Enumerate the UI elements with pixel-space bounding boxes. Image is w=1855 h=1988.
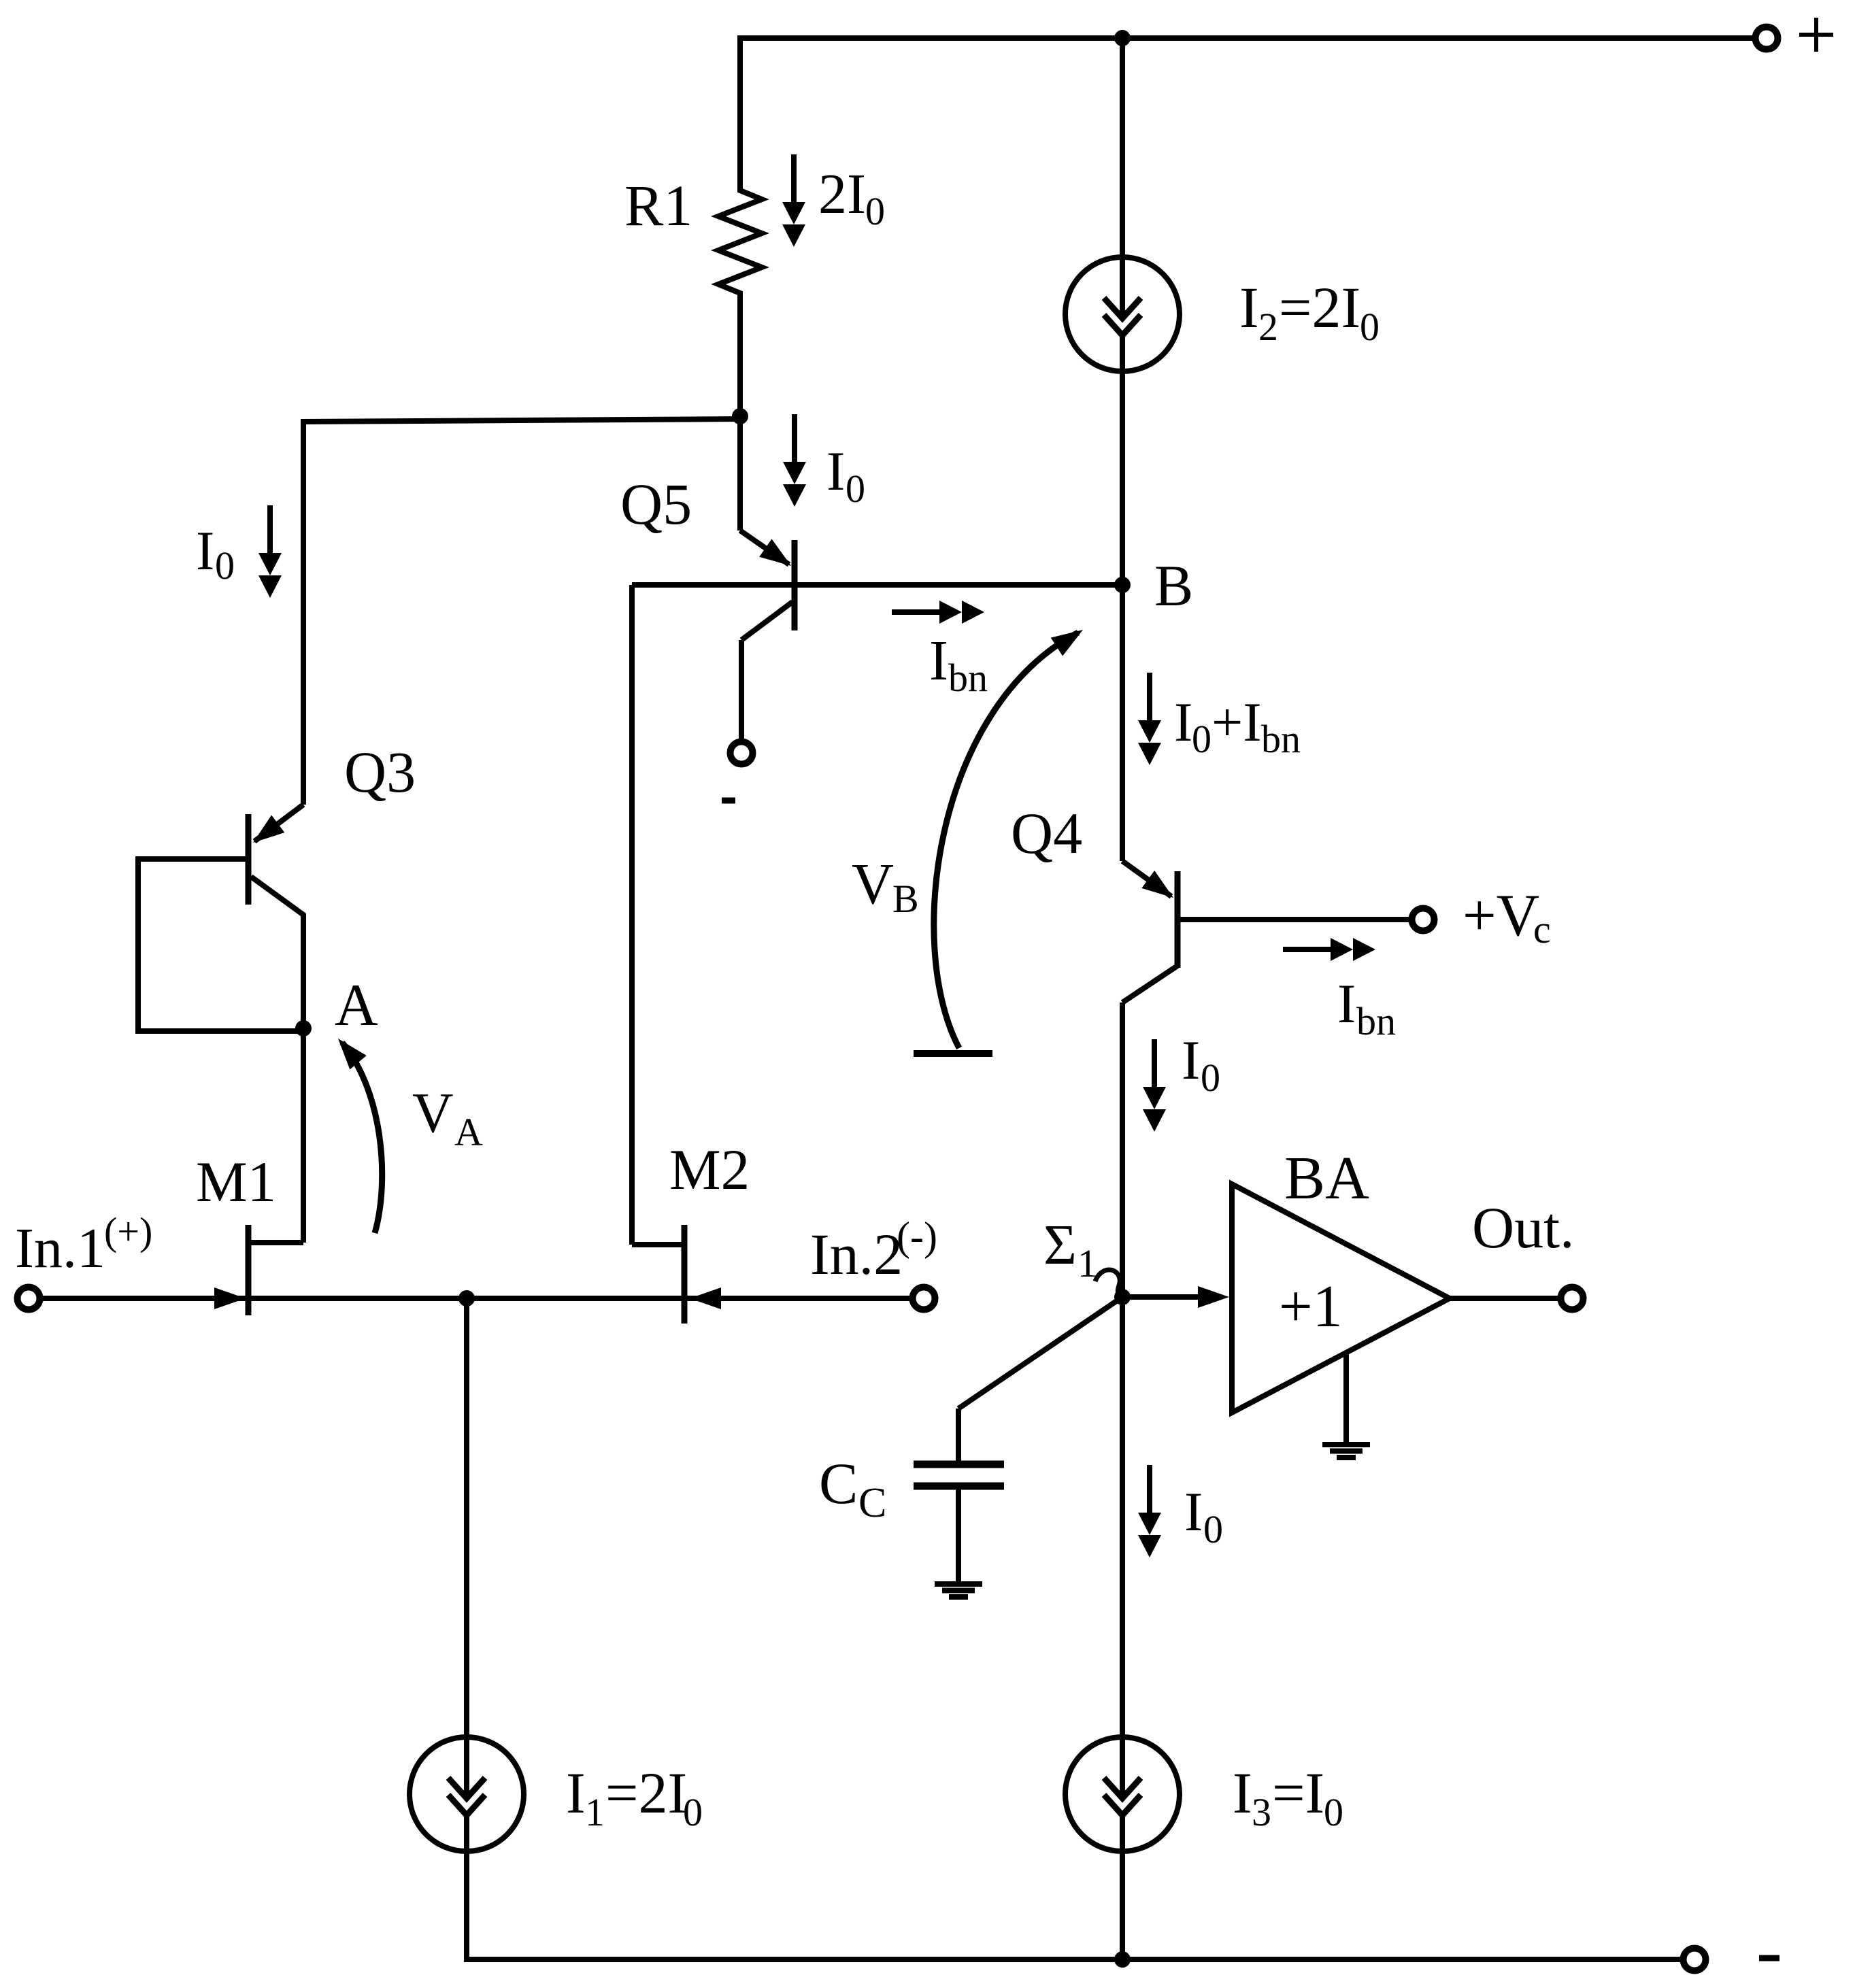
svg-text:2: 2 xyxy=(1258,305,1278,349)
svg-text:0: 0 xyxy=(1201,1056,1220,1100)
node tail xyxy=(458,1290,475,1307)
svg-text:bn: bn xyxy=(948,656,988,700)
svg-text:(+): (+) xyxy=(104,1209,152,1253)
svg-text:In.2: In.2 xyxy=(810,1222,903,1287)
arrow I0 left branch xyxy=(258,505,282,598)
svg-text:0: 0 xyxy=(846,467,865,511)
svg-text:0: 0 xyxy=(1324,1790,1343,1834)
svg-text:+1: +1 xyxy=(1279,1274,1343,1340)
svg-text:I: I xyxy=(1184,1481,1203,1543)
transistor Q5 xyxy=(740,416,797,741)
svg-text:1: 1 xyxy=(585,1790,605,1834)
terminal +Vc xyxy=(1412,909,1435,931)
wire I2 branch top xyxy=(1120,38,1125,257)
arrow I0 at Q5 emitter xyxy=(783,414,806,507)
label minus at Q5 collector xyxy=(722,798,735,804)
wire tail down to I1 xyxy=(464,1298,469,1737)
svg-text:B: B xyxy=(892,877,919,921)
node top rail / I2 xyxy=(1114,30,1131,46)
arrow I0+Ibn xyxy=(1138,673,1161,765)
op-amp BA buffer xyxy=(1232,1184,1450,1413)
svg-text:bn: bn xyxy=(1356,999,1396,1043)
svg-text:C: C xyxy=(858,1480,886,1526)
svg-text:I: I xyxy=(196,520,214,582)
svg-text:+I: +I xyxy=(1211,691,1262,753)
wire I2 to node B xyxy=(1120,371,1125,585)
svg-text:M2: M2 xyxy=(669,1138,750,1202)
svg-text:Q4: Q4 xyxy=(1011,801,1082,866)
svg-text:=I: =I xyxy=(1272,1760,1324,1825)
svg-text:+V: +V xyxy=(1463,883,1539,949)
arrowhead buffer input xyxy=(1198,1286,1229,1308)
arc arrow VA xyxy=(330,1032,382,1233)
squiggle Sigma1 pointer xyxy=(1095,1270,1120,1295)
wire Q5 base line to node B xyxy=(632,582,1122,588)
svg-text:0: 0 xyxy=(215,543,235,588)
ground at BA xyxy=(1322,1353,1370,1458)
node bottom rail / I3 xyxy=(1114,1951,1131,1968)
svg-text:R1: R1 xyxy=(624,173,692,238)
svg-text:I: I xyxy=(1239,275,1259,340)
terminal In.2 xyxy=(913,1287,935,1310)
svg-text:1: 1 xyxy=(1077,1241,1097,1285)
wire I3 to bottom rail xyxy=(1120,1851,1125,1959)
svg-text:c: c xyxy=(1533,907,1551,951)
svg-text:I: I xyxy=(826,440,845,502)
svg-text:Q3: Q3 xyxy=(344,739,416,805)
current source I1 xyxy=(410,1737,524,1851)
wire Q4 emitter down to Sigma1 and I3 xyxy=(1120,1003,1125,1737)
transistor Q4 xyxy=(1122,861,1411,1003)
svg-text:A: A xyxy=(454,1110,483,1154)
arrow Ibn into node B xyxy=(892,601,984,624)
wire I1 to bottom rail xyxy=(467,1851,1682,1959)
transistor Q3 (diode connected PNP) xyxy=(138,805,303,1031)
terminal - (bottom right) xyxy=(1684,1949,1706,1971)
wire common source line xyxy=(248,1296,684,1301)
svg-text:2I: 2I xyxy=(818,163,866,226)
terminal + (top right) xyxy=(1756,27,1778,50)
resistor R1 xyxy=(718,35,762,416)
label + (top right) xyxy=(1799,18,1833,52)
current source I3 xyxy=(1065,1737,1180,1851)
svg-text:bn: bn xyxy=(1261,717,1301,761)
label - (bottom right) xyxy=(1759,1955,1779,1961)
svg-text:A: A xyxy=(335,973,378,1039)
transistor M1 (input FET) xyxy=(42,1028,303,1315)
svg-text:Q5: Q5 xyxy=(620,471,692,537)
wire buffer output xyxy=(1450,1296,1560,1301)
svg-text:0: 0 xyxy=(1203,1507,1223,1551)
svg-text:V: V xyxy=(852,851,894,916)
svg-text:V: V xyxy=(412,1081,454,1145)
svg-text:0: 0 xyxy=(683,1790,703,1834)
wire Sigma1 to buffer input xyxy=(1122,1294,1204,1300)
wire R1 bottom to Q3 emitter column xyxy=(303,419,740,805)
wire node B to Q4 xyxy=(1120,585,1125,861)
svg-text:I: I xyxy=(1174,691,1192,753)
wire top positive rail xyxy=(740,35,1755,41)
ground at CC xyxy=(935,1584,982,1597)
node B xyxy=(1114,577,1131,593)
svg-text:I: I xyxy=(1337,973,1356,1034)
arc arrow VB xyxy=(914,621,1089,1054)
svg-text:=2I: =2I xyxy=(605,1760,687,1825)
svg-text:0: 0 xyxy=(865,189,885,233)
svg-text:(-): (-) xyxy=(897,1214,937,1259)
capacitor CC xyxy=(914,1297,1122,1582)
terminal Q5 collector xyxy=(731,742,753,764)
svg-text:0: 0 xyxy=(1360,305,1380,349)
svg-text:=2I: =2I xyxy=(1279,275,1360,340)
svg-text:C: C xyxy=(819,1451,858,1516)
svg-text:3: 3 xyxy=(1252,1790,1271,1834)
svg-text:0: 0 xyxy=(1192,717,1211,761)
svg-text:Out.: Out. xyxy=(1472,1195,1575,1260)
svg-text:I: I xyxy=(1233,1760,1252,1825)
svg-text:B: B xyxy=(1154,553,1193,618)
current source I2 xyxy=(1065,257,1180,371)
svg-text:BA: BA xyxy=(1284,1145,1369,1212)
arrow 2I0 current into R1 xyxy=(782,154,805,247)
arrow Ibn at Q4 collector out xyxy=(1283,938,1375,961)
node Sigma1 xyxy=(1114,1289,1131,1305)
arrow I0 above I3 xyxy=(1138,1465,1161,1557)
svg-text:I: I xyxy=(566,1760,586,1825)
terminal Out xyxy=(1561,1287,1584,1310)
svg-text:I: I xyxy=(929,629,948,692)
svg-text:Σ: Σ xyxy=(1043,1213,1077,1277)
svg-text:In.1: In.1 xyxy=(15,1217,105,1280)
svg-text:M1: M1 xyxy=(196,1150,276,1214)
arrow I0 below Q4 xyxy=(1143,1039,1166,1132)
terminal In.1 xyxy=(18,1287,40,1310)
node A xyxy=(295,1020,312,1037)
transistor M2 (input FET) xyxy=(632,585,910,1324)
node R1 bottom xyxy=(732,408,748,424)
svg-text:I: I xyxy=(1182,1029,1200,1091)
